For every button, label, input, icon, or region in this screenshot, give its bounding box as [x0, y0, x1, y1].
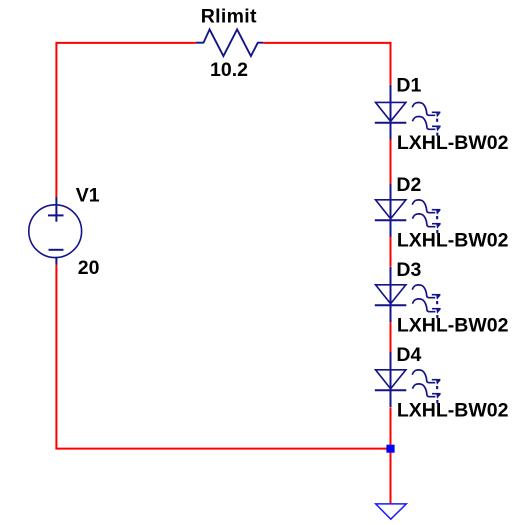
svg-text:Rlimit: Rlimit: [201, 6, 257, 28]
svg-text:D1: D1: [396, 75, 421, 97]
svg-text:LXHL-BW02: LXHL-BW02: [397, 400, 509, 422]
wire D3-D4: [390, 322, 392, 352]
LED D1: [375, 85, 441, 140]
voltage source V1 plus sign: [48, 214, 64, 216]
svg-text:LXHL-BW02: LXHL-BW02: [397, 132, 509, 154]
LED D4: [375, 352, 441, 407]
svg-text:10.2: 10.2: [210, 59, 248, 81]
svg-text:D2: D2: [396, 174, 421, 196]
voltage source V1 pin top: [55, 197, 57, 222]
wire top-right: resistor to top-right corner down to D1: [263, 43, 390, 85]
svg-text:D3: D3: [396, 259, 421, 281]
LED D2: [375, 184, 441, 237]
svg-text:D4: D4: [396, 344, 421, 366]
resistor Rlimit: [196, 29, 263, 56]
svg-text:LXHL-BW02: LXHL-BW02: [397, 230, 509, 252]
LED D3: [375, 267, 441, 322]
svg-text:V1: V1: [76, 185, 100, 207]
voltage source V1 minus sign: [49, 249, 64, 251]
wire top-left: left vertical upper + top horizontal to resistor: [56, 43, 195, 197]
ground: [376, 504, 407, 519]
voltage source V1 pin bottom: [55, 257, 57, 265]
svg-text:20: 20: [78, 257, 100, 279]
wire bottom: V1 bottom down, bottom horizontal to junction: [56, 265, 390, 449]
wire D4 to junction to ground: [390, 407, 392, 504]
svg-text:LXHL-BW02: LXHL-BW02: [397, 315, 509, 337]
junction node: [386, 445, 394, 453]
voltage source V1 circle: [29, 205, 82, 258]
wire D1-D2: [390, 139, 392, 184]
wire D2-D3: [390, 237, 392, 267]
